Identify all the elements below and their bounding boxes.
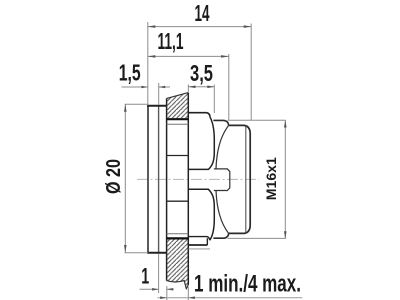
svg-text:11,1: 11,1: [158, 28, 184, 54]
svg-text:Ø 20: Ø 20: [103, 159, 125, 194]
svg-text:3,5: 3,5: [190, 60, 213, 86]
svg-text:1: 1: [141, 264, 149, 289]
svg-text:1,5: 1,5: [119, 59, 141, 85]
svg-text:1 min./4 max.: 1 min./4 max.: [194, 270, 301, 297]
svg-text:M16x1: M16x1: [263, 157, 279, 200]
svg-text:14: 14: [195, 0, 210, 26]
